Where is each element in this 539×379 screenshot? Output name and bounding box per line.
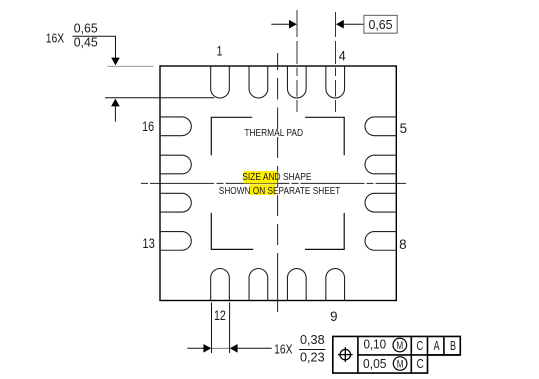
fcf divider 4: [443, 336, 445, 355]
fraction bar bottom: [299, 349, 325, 351]
bottom ext line right: [229, 302, 231, 353]
up arrow tail: [114, 106, 116, 122]
position symbol: [338, 347, 353, 362]
pad bottom dimension line: [105, 97, 214, 99]
svg-text:M: M: [397, 359, 404, 371]
pin 4 centerline extension: [335, 12, 337, 112]
thermal pad bracket bottom-right: [305, 213, 344, 250]
pin 3 pad: [287, 66, 306, 98]
svg-text:0,05: 0,05: [363, 356, 387, 371]
pin 5 pad: [365, 117, 396, 136]
svg-text:THERMAL PAD: THERMAL PAD: [244, 127, 303, 139]
yellow highlight 2: [249, 184, 276, 195]
pin 10 pad: [287, 269, 306, 301]
pin 15 pad: [160, 155, 191, 174]
pin 1 pad: [211, 66, 230, 98]
svg-text:1: 1: [217, 43, 223, 59]
yellow highlight 1: [244, 171, 278, 183]
svg-text:M: M: [396, 340, 403, 352]
svg-text:A: A: [434, 338, 440, 353]
svg-text:0,23: 0,23: [300, 349, 325, 364]
feature control frame outline: [333, 336, 461, 373]
up arrowhead: [111, 99, 120, 107]
thermal pad bracket top-left: [211, 117, 252, 155]
svg-text:B: B: [450, 338, 456, 353]
svg-text:SHOWN ON SEPARATE SHEET: SHOWN ON SEPARATE SHEET: [219, 185, 341, 197]
svg-text:0,65: 0,65: [369, 17, 393, 32]
bottom dim line left w/ arrow: [187, 347, 203, 349]
svg-text:4: 4: [339, 48, 346, 64]
bottom dim line right w/ arrow: [230, 344, 238, 353]
svg-text:0,38: 0,38: [300, 332, 325, 347]
fcf divider 3: [427, 336, 429, 355]
M circle bottom: [393, 357, 407, 371]
pin 13 pad: [160, 232, 191, 251]
vertical centerline: [277, 53, 279, 312]
horizontal centerline: [141, 182, 406, 184]
pin 16 pad: [160, 117, 191, 136]
svg-text:0,45: 0,45: [74, 34, 98, 49]
svg-text:8: 8: [399, 236, 407, 252]
top edge extension line: [107, 65, 153, 67]
boxed dim 0,65: [364, 15, 397, 33]
svg-text:SIZE AND SHAPE: SIZE AND SHAPE: [242, 171, 311, 183]
thermal pad bracket top-right: [305, 117, 344, 155]
down arrowhead: [111, 58, 120, 66]
svg-text:C: C: [417, 338, 424, 353]
fcf row divider: [358, 354, 460, 356]
svg-text:C: C: [417, 356, 424, 371]
svg-text:16X: 16X: [274, 342, 293, 357]
leader from fraction: [99, 36, 116, 58]
svg-text:5: 5: [400, 120, 408, 136]
pin 7 pad: [365, 193, 396, 212]
thermal pad bracket bottom-left: [211, 213, 253, 250]
svg-text:16X: 16X: [46, 31, 65, 46]
pin 2 pad: [249, 66, 268, 98]
svg-text:13: 13: [142, 235, 155, 251]
package outline: [160, 66, 396, 301]
pitch dim line right w/ arrow: [336, 20, 344, 29]
pin 9 pad: [326, 269, 345, 301]
pin 8 pad: [365, 232, 396, 251]
fcf divider 2: [410, 336, 412, 373]
svg-text:16: 16: [142, 118, 154, 134]
pin 6 pad: [365, 155, 396, 174]
svg-text:9: 9: [330, 308, 338, 324]
pin 3 centerline extension: [296, 10, 298, 112]
fcf divider 1: [357, 336, 359, 373]
fraction bar top left: [73, 35, 100, 37]
bottom ext line left: [211, 302, 213, 353]
pin 12 pad: [211, 269, 230, 301]
svg-text:12: 12: [214, 307, 226, 323]
M circle top: [393, 338, 407, 352]
pitch dim line left w/ arrow: [271, 23, 289, 25]
svg-text:0,65: 0,65: [74, 20, 98, 35]
pin 11 pad: [249, 269, 268, 301]
pin 14 pad: [160, 193, 191, 212]
svg-text:0,10: 0,10: [364, 337, 387, 352]
pin 4 pad: [326, 66, 345, 98]
